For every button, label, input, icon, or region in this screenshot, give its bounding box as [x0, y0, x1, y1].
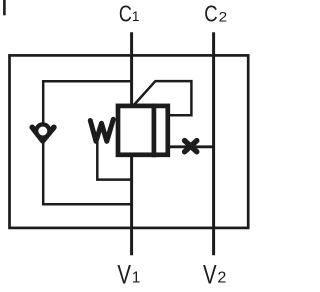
svg-text:C: C [204, 1, 217, 27]
svg-text:1: 1 [132, 270, 141, 287]
port line C1 [130, 32, 133, 105]
valve body envelope box [10, 55, 249, 228]
spring [90, 119, 113, 141]
plug symbol X [185, 141, 197, 152]
svg-text:V: V [203, 259, 217, 289]
port line C2-V2 [212, 32, 215, 255]
pilot line to spool top [134, 81, 191, 115]
check valve branch loop [43, 81, 132, 204]
svg-text:C: C [119, 1, 132, 27]
frame tick [3, 0, 6, 15]
port line V1 [130, 156, 133, 256]
pilot line from spring [97, 142, 131, 180]
relief valve envelope [118, 106, 168, 155]
svg-text:V: V [117, 259, 131, 289]
check valve seat [32, 127, 54, 141]
svg-text:2: 2 [217, 270, 226, 287]
plugged port line [168, 145, 214, 148]
svg-text:1: 1 [132, 8, 140, 24]
svg-text:2: 2 [219, 9, 228, 25]
check valve ball [36, 124, 49, 137]
relief valve piston line [152, 104, 157, 158]
